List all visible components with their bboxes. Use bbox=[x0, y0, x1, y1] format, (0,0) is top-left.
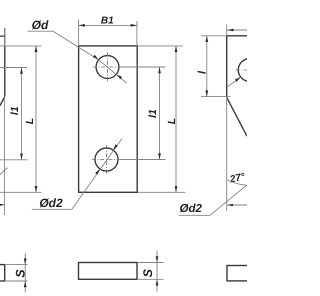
angle arc 27deg (right view) bbox=[227, 180, 247, 186]
svg-text:l1: l1 bbox=[9, 106, 21, 115]
extension line plate top right bbox=[138, 45, 183, 47]
extension line bar bottom (middle) bbox=[137, 278, 164, 280]
arrow l1 bottom (middle) bbox=[158, 153, 161, 159]
diameter line through top hole bbox=[99, 60, 127, 83]
dimension line l (right view) bbox=[206, 36, 208, 97]
arrow S bottom (left) bbox=[24, 281, 27, 287]
svg-text:B1: B1 bbox=[101, 16, 114, 27]
extension line plate bottom right bbox=[138, 191, 186, 193]
dimension line B1 (left view, cut) bbox=[0, 35, 5, 37]
dimension line bottom width (left view, cut) bbox=[0, 204, 5, 206]
extension line top hole center (left view) bbox=[0, 67, 27, 69]
plate right edge (left view) bbox=[4, 46, 6, 97]
center mark top hole bbox=[93, 66, 122, 68]
svg-text:S: S bbox=[141, 268, 155, 277]
svg-text:Ød: Ød bbox=[32, 18, 49, 32]
arrow L bottom (left) bbox=[35, 186, 38, 192]
dimension line S (middle) bbox=[156, 251, 158, 292]
dimension line B1 (right view, cut) bbox=[227, 29, 247, 31]
svg-text:S: S bbox=[13, 269, 27, 278]
arrow B1 left bbox=[79, 24, 85, 27]
arrow bottom width (left) bbox=[0, 204, 5, 207]
arrow l1 top (middle) bbox=[158, 67, 161, 73]
hole top (middle view) bbox=[96, 56, 119, 79]
taper edge 27deg (right view) bbox=[227, 97, 247, 136]
arrow l top (right) bbox=[205, 36, 208, 42]
extension line bar top (middle) bbox=[137, 262, 164, 264]
center mark bottom hole bbox=[92, 159, 121, 161]
side view bar (left) bbox=[0, 265, 5, 281]
arrow l1 bottom (left) bbox=[20, 154, 23, 160]
svg-text:Ød2: Ød2 bbox=[39, 196, 63, 210]
arrow Od lower-right bbox=[116, 74, 122, 79]
dimension line l1 (middle view) bbox=[159, 67, 161, 160]
extension line bar top (left) bbox=[5, 264, 28, 266]
arrow l1 top (left) bbox=[20, 68, 23, 74]
arrow L top (middle) bbox=[175, 46, 178, 52]
plate outline (middle view) bbox=[79, 46, 138, 192]
leader line Od (right view) bbox=[228, 77, 241, 87]
svg-text:l1: l1 bbox=[147, 109, 159, 118]
svg-text:L: L bbox=[24, 118, 36, 124]
arrow Od upper-left bbox=[93, 55, 99, 60]
dimension line S (left) bbox=[24, 253, 26, 293]
extension line bottom hole center (left view) bbox=[0, 159, 28, 161]
arrow L bottom (middle) bbox=[175, 186, 178, 192]
hole top (right view) bbox=[238, 59, 261, 82]
center mark hole (right view) bbox=[236, 69, 248, 71]
extension line bar bottom (left) bbox=[5, 280, 28, 282]
extension line from taper vertex (right view) bbox=[226, 97, 228, 211]
side view bar (middle) bbox=[79, 263, 138, 280]
arrow bottom width (right) bbox=[227, 204, 233, 207]
side view bar (right) bbox=[227, 266, 259, 281]
svg-text:Ød2: Ød2 bbox=[180, 203, 203, 215]
arrow S top (left) bbox=[24, 258, 27, 264]
hole bottom (middle view) bbox=[95, 148, 118, 171]
arrow l bottom (right) bbox=[205, 90, 208, 96]
dimension line L (left view) bbox=[35, 46, 37, 192]
arrow B1 (right view) bbox=[227, 29, 233, 32]
extension line top hole center bbox=[121, 66, 166, 68]
plate top edge (right view) bbox=[227, 35, 247, 37]
arrow Od2 lower-left bbox=[95, 169, 100, 175]
dimension line L (middle view) bbox=[175, 46, 177, 192]
extension line B1 right bbox=[136, 21, 138, 46]
extension line above corner (right view) bbox=[226, 24, 228, 35]
arrow S top (middle) bbox=[156, 256, 159, 262]
dimension line bottom width (right view, cut) bbox=[227, 204, 247, 206]
extension line bottom (left view) bbox=[0, 191, 42, 193]
arrow L top (left) bbox=[35, 46, 38, 52]
extension line from taper vertex (left view) bbox=[3, 97, 5, 216]
svg-text:L: L bbox=[166, 118, 178, 124]
arrow B1 right bbox=[131, 24, 137, 27]
extension line B1 left bbox=[78, 20, 80, 46]
leader line Od2 (middle view) bbox=[32, 208, 72, 210]
dimension line B1 bbox=[79, 24, 137, 26]
angle arc 27deg (left view) bbox=[0, 168, 8, 175]
arrow S bottom (middle) bbox=[156, 279, 159, 285]
plate left edge (right view) bbox=[226, 36, 228, 98]
taper edge 27deg (left view) bbox=[0, 97, 5, 106]
leader line Od2 (right view) bbox=[179, 214, 211, 216]
extension line top (right view) bbox=[201, 35, 227, 37]
extension line top (left view) bbox=[0, 45, 42, 47]
arrow Od (right view) bbox=[235, 77, 241, 82]
extension line above corner (left view) bbox=[4, 28, 6, 46]
extension line bottom hole center bbox=[120, 159, 166, 161]
arrow Od2 upper-right bbox=[113, 144, 118, 150]
leader line Od bbox=[28, 30, 54, 32]
extension line vertex level (right view) bbox=[201, 96, 231, 98]
dimension line l1 (left view) bbox=[21, 68, 23, 160]
